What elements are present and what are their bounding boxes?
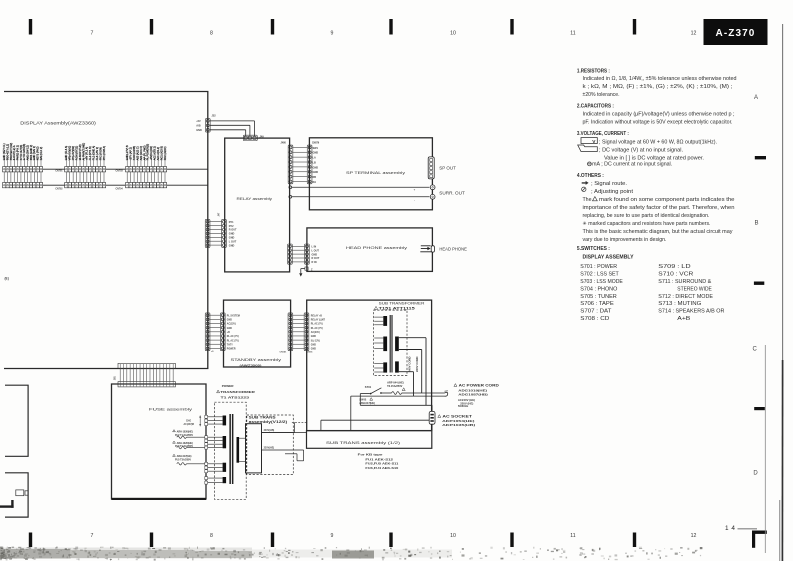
wire T1 secondary leads <box>239 438 245 461</box>
svg-text:GND: GND <box>229 237 235 240</box>
svg-text:AC SOCKET: AC SOCKET <box>442 415 472 419</box>
svg-text:5L(-12V): 5L(-12V) <box>311 340 320 342</box>
wire socket feed vertical <box>431 405 433 411</box>
connector CN141 standby side <box>220 313 225 351</box>
svg-text:L OUT: L OUT <box>229 240 237 243</box>
svg-text:2.CAPACITORS :: 2.CAPACITORS : <box>577 104 614 110</box>
T151 secondary winding lower <box>395 361 399 372</box>
T151 primary winding 3 <box>374 362 387 372</box>
svg-text:FU5 T3A/250V: FU5 T3A/250V <box>175 458 191 461</box>
svg-text:ABH-017(HE): ABH-017(HE) <box>359 402 375 405</box>
svg-text:FUSE assembly: FUSE assembly <box>149 408 192 412</box>
section divider dash A/B <box>755 156 766 159</box>
pin Z chassis ground <box>305 267 313 271</box>
svg-text:10: 10 <box>450 533 456 539</box>
ac inlet detail <box>16 490 28 496</box>
svg-text:HEAD PHONE: HEAD PHONE <box>439 247 467 252</box>
wire bus lower connector row <box>43 184 208 186</box>
svg-text:J480: J480 <box>281 142 287 145</box>
wire FU5 to edge <box>186 463 206 465</box>
svg-text:; Signal voltage at 60 W + 60: ; Signal voltage at 60 W + 60 W, 8Ω outp… <box>599 140 717 146</box>
wire T151 secondary lead 1 <box>399 338 426 406</box>
svg-text:SUB TRANS assembly (1/2): SUB TRANS assembly (1/2) <box>326 441 400 445</box>
svg-text:RC2 (A22C): RC2 (A22C) <box>164 146 167 160</box>
T151 primary winding 1 <box>374 316 387 326</box>
svg-text:SW1: SW1 <box>313 147 319 150</box>
fuse assembly board outline <box>112 384 207 500</box>
svg-text:A/B: A/B <box>196 125 201 128</box>
svg-text:DAI (CLK 2): DAI (CLK 2) <box>40 147 43 161</box>
sp terminal assembly board outline <box>309 138 432 210</box>
connector J49 on relay board <box>243 135 257 140</box>
svg-text:7: 7 <box>91 31 94 37</box>
connector CN151 standby side <box>288 313 293 351</box>
wire socket bottom <box>431 424 433 430</box>
wire J52 pin3 to relay J49 <box>210 130 246 137</box>
T1 core <box>229 414 233 484</box>
display assembly board outline <box>4 92 208 369</box>
svg-text:9: 9 <box>331 31 334 37</box>
svg-text:Indicated in capacity (μF)/vol: Indicated in capacity (μF)/voltage(V) un… <box>583 111 735 117</box>
svg-text:CN704: CN704 <box>116 187 124 190</box>
svg-text:RY1 (VR5 A): RY1 (VR5 A) <box>103 146 106 160</box>
svg-text:240V CORD: 240V CORD <box>408 356 412 372</box>
svg-text:STANDBY assembly: STANDBY assembly <box>231 357 282 362</box>
svg-text:AC POWER CORD: AC POWER CORD <box>459 384 500 388</box>
connector CN141 display side <box>205 313 210 351</box>
svg-text:TRANSFORMER: TRANSFORMER <box>220 390 256 394</box>
svg-text:SUB TRANSFORMER: SUB TRANSFORMER <box>379 302 425 306</box>
svg-text:SW B: SW B <box>359 397 366 401</box>
svg-text:AKP1035(HB): AKP1035(HB) <box>442 423 475 427</box>
svg-text:RB: RB <box>313 176 317 179</box>
svg-text:AC(24V)B: AC(24V)B <box>184 423 195 426</box>
svg-text:CN151: CN151 <box>280 351 288 353</box>
svg-text:; Signal route.: ; Signal route. <box>591 181 627 187</box>
svg-text:GND: GND <box>229 233 235 236</box>
sub trans dashed outline <box>247 415 293 475</box>
svg-text:9: 9 <box>331 533 334 539</box>
svg-text:vary due to improvements in de: vary due to improvements in design. <box>583 237 667 243</box>
svg-text:A: A <box>754 95 758 101</box>
svg-text:The: The <box>583 197 592 203</box>
svg-text:SP TERMINAL assembly: SP TERMINAL assembly <box>346 170 405 175</box>
fuse FU3 <box>173 441 194 449</box>
ac socket <box>429 411 435 424</box>
T1 winding 3 <box>205 462 226 472</box>
T151 secondary winding upper <box>395 337 399 352</box>
svg-text:RELAY +B: RELAY +B <box>311 314 323 317</box>
svg-text:S703 : LSS MODE: S703 : LSS MODE <box>580 279 623 285</box>
svg-text:RELAY (L)NT: RELAY (L)NT <box>311 319 326 322</box>
svg-text:S710 : VCR: S710 : VCR <box>658 272 693 278</box>
speaker terminal box lower <box>5 473 28 517</box>
svg-text:importance of the safety f: importance of the safety factor of the p… <box>583 205 735 211</box>
signal voltage symbol <box>581 138 597 146</box>
svg-text:12: 12 <box>691 31 697 37</box>
sub trans label <box>249 415 288 424</box>
wire FU3 to edge <box>186 447 206 449</box>
ac power cord double line <box>351 393 445 396</box>
connector J48 relay side <box>288 145 293 184</box>
ac power cord label <box>454 384 500 409</box>
chassis ground triangle <box>299 273 302 276</box>
T1 primary winding 1 <box>205 415 226 425</box>
wire T151 secondary lead 2 <box>399 350 422 394</box>
svg-text:A+B: A+B <box>677 316 691 322</box>
power switch S701 <box>370 388 382 395</box>
sub trans assembly board outline <box>307 431 432 449</box>
model number plate A-Z370 <box>704 19 768 45</box>
svg-text:8: 8 <box>210 31 213 37</box>
wire switch feed <box>360 394 432 406</box>
power transformer T1 dashed outline <box>214 402 246 499</box>
svg-text:GND: GND <box>311 336 316 338</box>
svg-text:220V CORD: 220V CORD <box>415 356 419 372</box>
power supply board outline <box>307 300 432 431</box>
wire pin Z to chassis <box>301 269 305 274</box>
svg-text:; Adjusting point: ; Adjusting point <box>591 189 634 195</box>
switch list column 1 <box>580 264 623 322</box>
svg-text:C: C <box>753 347 758 353</box>
svg-text:GND: GND <box>227 320 232 322</box>
wire switch to line fuse <box>382 392 392 394</box>
connector CN703 pin labels <box>65 143 106 161</box>
svg-text:220V(HE): 220V(HE) <box>264 447 275 450</box>
svg-text:pF. Indication without voltage: pF. Indication without voltage is 50V ex… <box>583 119 733 125</box>
wires J44 <box>292 246 304 262</box>
wire 220V tap <box>262 450 304 461</box>
fuse FU2 <box>173 430 194 439</box>
svg-text:11: 11 <box>570 31 575 37</box>
wires J48 <box>293 147 307 181</box>
connector CN701 pin strip group 1 <box>3 158 43 188</box>
svg-text:S701: S701 <box>365 385 372 389</box>
svg-text:AC(12V): AC(12V) <box>227 323 236 326</box>
wire FU2 to edge <box>186 436 206 438</box>
svg-text:GND: GND <box>313 171 319 174</box>
svg-text:GND: GND <box>196 129 202 132</box>
svg-text:GND: GND <box>312 253 318 256</box>
connector CN705 pin strip group 3 <box>126 158 167 188</box>
svg-text:D: D <box>753 471 758 477</box>
svg-text:CN876: CN876 <box>312 142 320 144</box>
section divider dash B/C <box>754 282 764 285</box>
bottom ruler numbers 7-12 <box>91 533 697 539</box>
svg-text:8: 8 <box>210 533 213 539</box>
svg-text:1.RESISTORS :: 1.RESISTORS : <box>577 68 610 74</box>
svg-text:AC(24V): AC(24V) <box>311 331 320 334</box>
svg-text:GND: GND <box>313 166 319 169</box>
connector J48 sp side <box>307 145 312 184</box>
wire 240V tap <box>262 422 307 432</box>
head phone jack symbol <box>420 246 434 252</box>
connector J44 headphone side <box>305 244 310 264</box>
switch label SW B <box>359 397 375 405</box>
svg-text:GND: GND <box>229 244 235 247</box>
fuse rating label <box>387 381 404 388</box>
svg-text:S704 : PHONO: S704 : PHONO <box>580 286 617 292</box>
svg-text:Indicated in Ω, 1/8, 1/4W,, ±5: Indicated in Ω, 1/8, 1/4W,, ±5% toleranc… <box>583 76 737 82</box>
svg-text:+B: +B <box>227 332 230 334</box>
standby assembly label <box>231 357 282 367</box>
bottom-right corner register mark <box>752 531 767 548</box>
svg-text:ARF-044 (HE): ARF-044 (HE) <box>387 381 404 385</box>
svg-text:DISPLAY ASSEMBLY: DISPLAY ASSEMBLY <box>583 254 634 260</box>
svg-text:HEAD PHONE assembly: HEAD PHONE assembly <box>346 245 407 250</box>
svg-text:L OUT: L OUT <box>312 249 320 252</box>
connector CN703 pin strip group 2 <box>65 158 106 188</box>
wire socket return <box>321 420 429 430</box>
signal route arrow symbol <box>582 181 589 185</box>
svg-text:FU3,FU4 AEK-S10: FU3,FU4 AEK-S10 <box>365 466 398 470</box>
dc voltage symbol <box>578 145 598 152</box>
svg-text:CN703: CN703 <box>116 171 124 173</box>
svg-text:50/60Hz: 50/60Hz <box>458 404 469 408</box>
top ruler tick marks <box>29 19 636 35</box>
svg-text:S702 : LSS SET: S702 : LSS SET <box>580 272 619 278</box>
bottom scan noise band <box>0 547 702 561</box>
svg-text:CHG: CHG <box>186 420 191 422</box>
ac socket label <box>438 415 475 428</box>
ac power cord end <box>445 391 448 396</box>
safety mark triangle in note <box>593 197 598 201</box>
J47 pin labels <box>229 221 237 247</box>
svg-text:R OUT: R OUT <box>312 257 320 260</box>
wires CN151 <box>293 315 304 348</box>
svg-text:+: + <box>414 188 416 192</box>
svg-text:Value in [ ] is DC voltage at: Value in [ ] is DC voltage at rated powe… <box>604 156 704 162</box>
svg-text:This is the basic schematic di: This is the basic schematic diagram, but… <box>583 229 733 235</box>
svg-text:R OUT: R OUT <box>229 229 237 232</box>
connector J47 display side <box>205 219 210 247</box>
svg-text:RL AC (7V): RL AC (7V) <box>311 323 323 326</box>
wire surr out minus <box>289 195 430 198</box>
svg-text:RL AC (7V): RL AC (7V) <box>227 335 239 338</box>
svg-text:RL AC (7V): RL AC (7V) <box>311 327 323 330</box>
svg-text:replacing, be sure to use part: replacing, be sure to use parts of ident… <box>583 213 710 219</box>
svg-text:-: - <box>414 199 415 203</box>
sub trans bobbin outline <box>246 424 262 473</box>
svg-text:S709 : LD: S709 : LD <box>658 264 691 270</box>
wire bus upper connector row <box>43 168 208 170</box>
right page edge scan line <box>765 24 782 561</box>
section divider dash C/D <box>754 407 765 410</box>
J52 pin labels <box>196 120 202 132</box>
svg-text:S712 : DIRECT MODE: S712 : DIRECT MODE <box>658 294 713 300</box>
head phone assembly board outline <box>307 228 433 272</box>
connector CN151 main side <box>304 313 309 351</box>
svg-text:; DC voltage (V) at no input: ; DC voltage (V) at no input signal. <box>599 148 683 154</box>
svg-text:GND: GND <box>311 344 316 346</box>
note 2 CAPACITORS <box>577 104 735 126</box>
svg-text:POWER: POWER <box>227 349 236 351</box>
dc current symbol <box>588 162 592 166</box>
svg-text:POWER: POWER <box>222 384 234 388</box>
connector CN61 display to fuse strip <box>118 363 175 387</box>
svg-text:CN15: CN15 <box>307 351 313 353</box>
connector CN705 pin labels <box>126 144 167 161</box>
line fuse F1 <box>392 388 406 395</box>
svg-text:S707 : DAT: S707 : DAT <box>580 309 612 315</box>
svg-text:T1 ATS1223: T1 ATS1223 <box>221 395 250 399</box>
svg-text:(AWZ3505): (AWZ3505) <box>240 363 262 367</box>
svg-text:12: 12 <box>691 533 697 539</box>
T151 primary winding 2 <box>374 337 387 352</box>
svg-text:GND: GND <box>227 328 232 330</box>
svg-text:S713 : MUTING: S713 : MUTING <box>658 301 701 307</box>
bottom ruler tick marks <box>29 533 636 548</box>
T1 primary winding 2 <box>205 436 226 449</box>
svg-text:LB: LB <box>313 161 317 164</box>
connector J44 relay side <box>288 244 293 264</box>
page number 14 <box>725 525 757 532</box>
svg-text:S701 : POWER: S701 : POWER <box>580 264 617 270</box>
J48 pin labels <box>313 147 319 184</box>
svg-text:GND: GND <box>311 349 316 351</box>
svg-text:STEREO WIDE: STEREO WIDE <box>677 286 712 292</box>
svg-text:RELAY assembly: RELAY assembly <box>237 196 273 201</box>
svg-text:4.OTHERS :: 4.OTHERS : <box>577 173 604 179</box>
svg-text:ADG1087(HB): ADG1087(HB) <box>458 392 488 396</box>
wire J52 pin2 to relay J49 <box>210 125 250 136</box>
wires J47 <box>210 222 222 245</box>
svg-text:mark found on some compone: mark found on some component parts indic… <box>599 197 735 203</box>
svg-text:11: 11 <box>570 533 575 539</box>
CN141 pin labels <box>227 315 240 350</box>
svg-text:3.VOLTAGE, CURRENT :: 3.VOLTAGE, CURRENT : <box>577 131 629 137</box>
connector J52 <box>205 119 210 133</box>
sub transformer T151 dashed outline <box>374 310 408 376</box>
svg-text:S708 : CD: S708 : CD <box>580 316 609 322</box>
surr out terminal minus <box>430 194 435 199</box>
surr out terminal plus <box>430 185 435 190</box>
svg-text:+5V: +5V <box>196 120 201 123</box>
svg-text:assembly(V12/2): assembly(V12/2) <box>249 420 288 424</box>
wire neutral drop <box>350 396 352 431</box>
note 5 SWITCHES <box>577 246 634 260</box>
standby assembly board outline <box>224 300 291 367</box>
svg-text:mA ; DC current at no input si: mA ; DC current at no input signal. <box>592 162 672 168</box>
T151 core <box>390 315 393 373</box>
T1 winding 4 <box>205 477 226 485</box>
svg-text:J52: J52 <box>212 115 217 118</box>
wire J52 pin1 to relay J49 <box>210 121 254 137</box>
svg-text:For KB type: For KB type <box>358 452 383 456</box>
svg-text:PL SYSTEM: PL SYSTEM <box>227 315 240 317</box>
svg-text:S711 : SURROUND &: S711 : SURROUND & <box>658 279 711 285</box>
fuse block label <box>184 415 202 426</box>
kb type fuse table <box>358 452 399 470</box>
connector CN701 pin labels <box>3 143 43 161</box>
svg-text:7: 7 <box>91 533 94 539</box>
svg-text:FU2 T1.6A/250V: FU2 T1.6A/250V <box>175 434 193 437</box>
CN151 pin labels <box>311 314 326 350</box>
svg-text:(E): (E) <box>5 276 9 280</box>
svg-text:LA: LA <box>313 157 317 160</box>
T1 secondary winding <box>237 437 240 463</box>
svg-text:B: B <box>754 221 758 227</box>
svg-text:RY1: RY1 <box>229 221 234 224</box>
svg-text:✳ marked capacitors and resist: ✳ marked capacitors and resistors have p… <box>583 221 711 227</box>
wires CN141 <box>210 315 221 348</box>
adjusting point symbol <box>582 187 586 191</box>
bottom-left corner register mark <box>0 500 14 508</box>
svg-text:CN701: CN701 <box>55 171 63 173</box>
svg-text:S706 : TAPE: S706 : TAPE <box>580 301 614 307</box>
svg-text:S705 : TUNER: S705 : TUNER <box>580 294 617 300</box>
J44 pin labels <box>312 246 320 265</box>
speaker terminal box upper <box>5 385 28 456</box>
svg-text:10: 10 <box>450 31 456 37</box>
svg-text:RA: RA <box>313 181 317 184</box>
svg-text:k ; kΩ, M ; MΩ, (F) ; ±1%,: k ; kΩ, M ; MΩ, (F) ; ±1%, (G) ; ±2%, (K… <box>583 84 733 90</box>
svg-text:SURR. OUT: SURR. OUT <box>439 190 465 195</box>
connector J47 relay side <box>222 219 227 247</box>
svg-text:5.SWITCHES :: 5.SWITCHES : <box>577 246 610 252</box>
svg-text:RY2: RY2 <box>229 225 234 228</box>
wire T151 secondary lead 3 <box>399 372 414 396</box>
top ruler numbers 7-12 <box>91 31 697 37</box>
sp out terminal connector <box>428 157 434 179</box>
svg-text:1 4: 1 4 <box>725 525 735 532</box>
svg-text:CN702: CN702 <box>55 188 63 190</box>
svg-text:A-Z370: A-Z370 <box>716 28 756 39</box>
sub transformer label <box>374 302 425 311</box>
svg-text:T3.15A/250V: T3.15A/250V <box>387 384 403 388</box>
svg-text:SUB TRANS: SUB TRANS <box>249 415 276 419</box>
svg-text:GND: GND <box>313 152 319 155</box>
svg-text:240V(HB): 240V(HB) <box>264 429 275 432</box>
svg-text:SP OUT: SP OUT <box>439 165 456 170</box>
switch list column 2 <box>658 264 724 322</box>
svg-text:L IN: L IN <box>312 246 317 249</box>
svg-text:THTY: THTY <box>227 344 233 346</box>
svg-text:S714 : SPEAKERS A/B OR: S714 : SPEAKERS A/B OR <box>658 309 724 315</box>
note 1 RESISTORS <box>577 68 737 98</box>
power transformer label <box>217 384 256 399</box>
svg-text:R IN: R IN <box>312 261 317 264</box>
svg-text:RL AC (7V): RL AC (7V) <box>227 339 239 342</box>
relay assembly board outline <box>225 138 290 272</box>
svg-text:±20% tolerance.: ±20% tolerance. <box>583 92 620 98</box>
svg-text:DISPLAY Assembly(AWZ3360): DISPLAY Assembly(AWZ3360) <box>20 120 96 125</box>
wire surr out plus <box>289 186 430 189</box>
fuse FU5 <box>173 454 192 465</box>
